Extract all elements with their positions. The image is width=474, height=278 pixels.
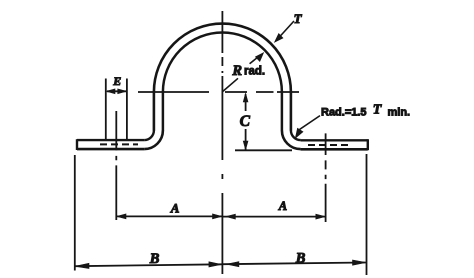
- R leader upper segment: [250, 56, 260, 64]
- B center-left arrow: [209, 262, 221, 267]
- right flange top line: [301, 139, 368, 141]
- left flange hidden hole line: [100, 143, 138, 145]
- C datum line: [235, 149, 292, 151]
- B right extension line: [366, 154, 368, 275]
- left outer bend: [144, 130, 163, 149]
- Rad.=1.5 T min. label: [321, 103, 410, 119]
- C dimension line upper: [245, 94, 247, 111]
- B center-right arrow: [227, 262, 239, 267]
- B dimension line left half: [76, 264, 223, 266]
- inner arch: [163, 33, 282, 93]
- C top arrow: [243, 93, 248, 102]
- svg-text:A: A: [170, 200, 180, 215]
- R leader stub from center: [223, 78, 238, 91]
- svg-text:A: A: [278, 199, 287, 213]
- right outer bend: [282, 130, 301, 149]
- B right arrow: [353, 260, 367, 265]
- A right arrow: [316, 214, 325, 219]
- right inner bend fillet: [291, 130, 301, 140]
- left leg outer line: [153, 91, 156, 131]
- left bolt centerline: [115, 111, 117, 220]
- E left extension line: [105, 79, 107, 141]
- A left arrow: [117, 214, 126, 219]
- T leader arrow: [275, 34, 284, 43]
- right flange hidden hole line: [308, 144, 352, 146]
- left flange bottom line: [77, 148, 144, 151]
- horizontal centerline: [138, 91, 299, 93]
- svg-text:T: T: [294, 11, 303, 26]
- left inner bend fillet: [144, 130, 154, 140]
- B dimension line right half: [223, 263, 366, 265]
- left leg inner line: [162, 91, 165, 131]
- B left extension line: [74, 155, 76, 271]
- svg-text:R: R: [231, 63, 242, 79]
- E right extension line: [126, 79, 128, 141]
- Rad leader line: [300, 116, 321, 130]
- right flange bottom line: [301, 148, 368, 151]
- svg-text:min.: min.: [388, 106, 411, 118]
- right bolt centerline: [325, 133, 327, 222]
- R leader arrow: [255, 53, 263, 62]
- C bottom arrow: [243, 141, 248, 150]
- A center-left arrow: [213, 214, 222, 219]
- svg-text:C: C: [240, 113, 251, 130]
- E dimension line: [107, 90, 126, 92]
- right leg inner line: [281, 91, 284, 131]
- right flange end cap: [367, 139, 369, 150]
- svg-text:rad.: rad.: [244, 66, 265, 78]
- E right arrow: [118, 89, 127, 94]
- T leader line: [279, 21, 295, 38]
- A center-right arrow: [226, 214, 235, 219]
- right leg outer line: [290, 91, 293, 131]
- E left arrow: [106, 89, 115, 94]
- svg-text:Rad.=1.5: Rad.=1.5: [321, 106, 367, 118]
- A dimension line right half: [223, 216, 325, 218]
- svg-text:E: E: [112, 74, 121, 88]
- left flange end cap: [76, 139, 78, 150]
- vertical centerline: [221, 11, 223, 274]
- C dimension line lower: [245, 129, 247, 150]
- Rad leader arrow: [295, 128, 303, 138]
- svg-text:B: B: [295, 250, 306, 266]
- svg-text:T: T: [373, 103, 383, 118]
- B left arrow: [75, 263, 89, 268]
- svg-text:B: B: [149, 251, 160, 267]
- A dimension line left half: [117, 215, 222, 217]
- outer arch: [154, 24, 291, 92]
- left flange top line: [77, 139, 144, 141]
